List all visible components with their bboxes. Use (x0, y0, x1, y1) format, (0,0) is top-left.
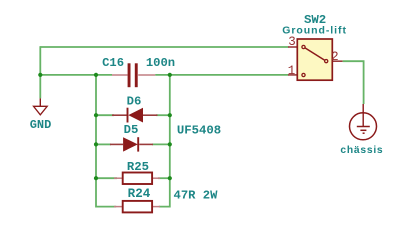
wire right rail (159, 75, 170, 207)
node junction (94, 73, 98, 77)
wire (96, 143, 111, 145)
wire (152, 143, 170, 145)
svg-text:R24: R24 (128, 187, 151, 201)
wire left rail (96, 75, 116, 207)
svg-text:C16: C16 (102, 56, 124, 70)
node junction (168, 142, 172, 146)
svg-text:2: 2 (331, 50, 339, 64)
diode D6 (112, 95, 158, 123)
svg-text:D6: D6 (127, 95, 142, 109)
svg-text:47R 2W: 47R 2W (174, 189, 219, 203)
svg-text:D5: D5 (124, 123, 139, 137)
resistor R24 (114, 187, 160, 212)
svg-text:100n: 100n (146, 56, 175, 70)
svg-text:R25: R25 (127, 160, 149, 174)
svg-text:chässis: chässis (340, 145, 383, 156)
switch SW2 (282, 13, 347, 80)
capacitor C16 (102, 56, 175, 87)
node junction (94, 142, 98, 146)
wire (158, 177, 170, 179)
node junction (168, 73, 172, 77)
svg-text:GND: GND (30, 118, 52, 132)
resistor R25 (114, 160, 160, 184)
ground GND (30, 98, 52, 131)
node junction left (38, 73, 42, 77)
wire to chassis (343, 61, 364, 104)
wire (96, 177, 117, 179)
diode D5 (110, 123, 153, 152)
wire (155, 74, 288, 76)
wire (40, 46, 288, 48)
wire (40, 74, 112, 76)
node junction (168, 113, 172, 117)
wire (96, 114, 114, 116)
node junction (94, 176, 98, 180)
wire (39, 46, 41, 98)
chassis earth symbol (340, 104, 383, 156)
node junction (168, 176, 172, 180)
svg-text:1: 1 (288, 64, 296, 78)
svg-text:UF5408: UF5408 (177, 124, 221, 138)
svg-text:Ground-lift: Ground-lift (282, 25, 347, 37)
svg-text:3: 3 (288, 35, 296, 49)
node junction (94, 113, 98, 117)
wire (156, 114, 170, 116)
